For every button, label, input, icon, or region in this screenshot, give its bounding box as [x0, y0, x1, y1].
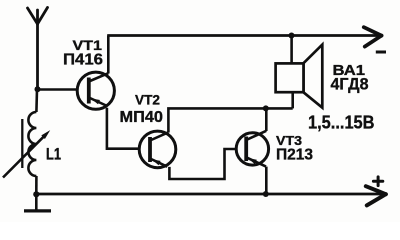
- svg-text:П213: П213: [276, 147, 313, 164]
- wire bottom rail positive: [36, 193, 385, 196]
- terminal arrow positive: [366, 186, 386, 205]
- svg-text:4ГД8: 4ГД8: [331, 74, 369, 93]
- transistor VT3: [236, 131, 268, 167]
- BA1 designator label: [331, 62, 369, 93]
- transistor VT2: [139, 131, 176, 168]
- minus label: [376, 51, 386, 54]
- wire VT3 emitter to bottom rail: [265, 167, 268, 194]
- svg-text:МП40: МП40: [120, 109, 164, 126]
- wire speaker to node C: [291, 92, 294, 108]
- node E ground junction: [33, 191, 39, 197]
- VT2 designator label: [120, 91, 164, 126]
- terminal arrow negative: [364, 27, 382, 46]
- wire VT1 emitter to VT2 base: [107, 108, 140, 149]
- svg-text:П416: П416: [63, 51, 103, 68]
- svg-text:1,5...15В: 1,5...15В: [308, 112, 375, 132]
- wire VT3 collector to node C: [265, 108, 268, 131]
- VT3 designator label: [276, 133, 313, 163]
- wire node B to speaker: [290, 36, 293, 64]
- antenna: [28, 8, 48, 90]
- speaker BA1: [276, 45, 323, 108]
- ground: [24, 194, 51, 211]
- wire VT2 emitter to VT3 base: [169, 149, 236, 179]
- wire VT1 collector to top rail: [107, 36, 110, 74]
- svg-text:VT2: VT2: [135, 91, 160, 107]
- wire top rail negative: [107, 34, 381, 37]
- node C collector junction: [263, 105, 269, 111]
- inductor L1: [3, 89, 50, 194]
- plus label: [373, 177, 382, 186]
- VT1 designator label: [63, 37, 103, 68]
- wire VT2 collector to node C and speaker: [168, 108, 292, 132]
- node A antenna/L1/VT1-base junction: [35, 86, 41, 92]
- node D VT3 emitter junction: [263, 191, 269, 197]
- transistor VT1: [77, 72, 114, 109]
- svg-text:L1: L1: [46, 144, 61, 163]
- node B speaker-top junction: [289, 33, 295, 39]
- wire node A to VT1 base: [38, 88, 78, 91]
